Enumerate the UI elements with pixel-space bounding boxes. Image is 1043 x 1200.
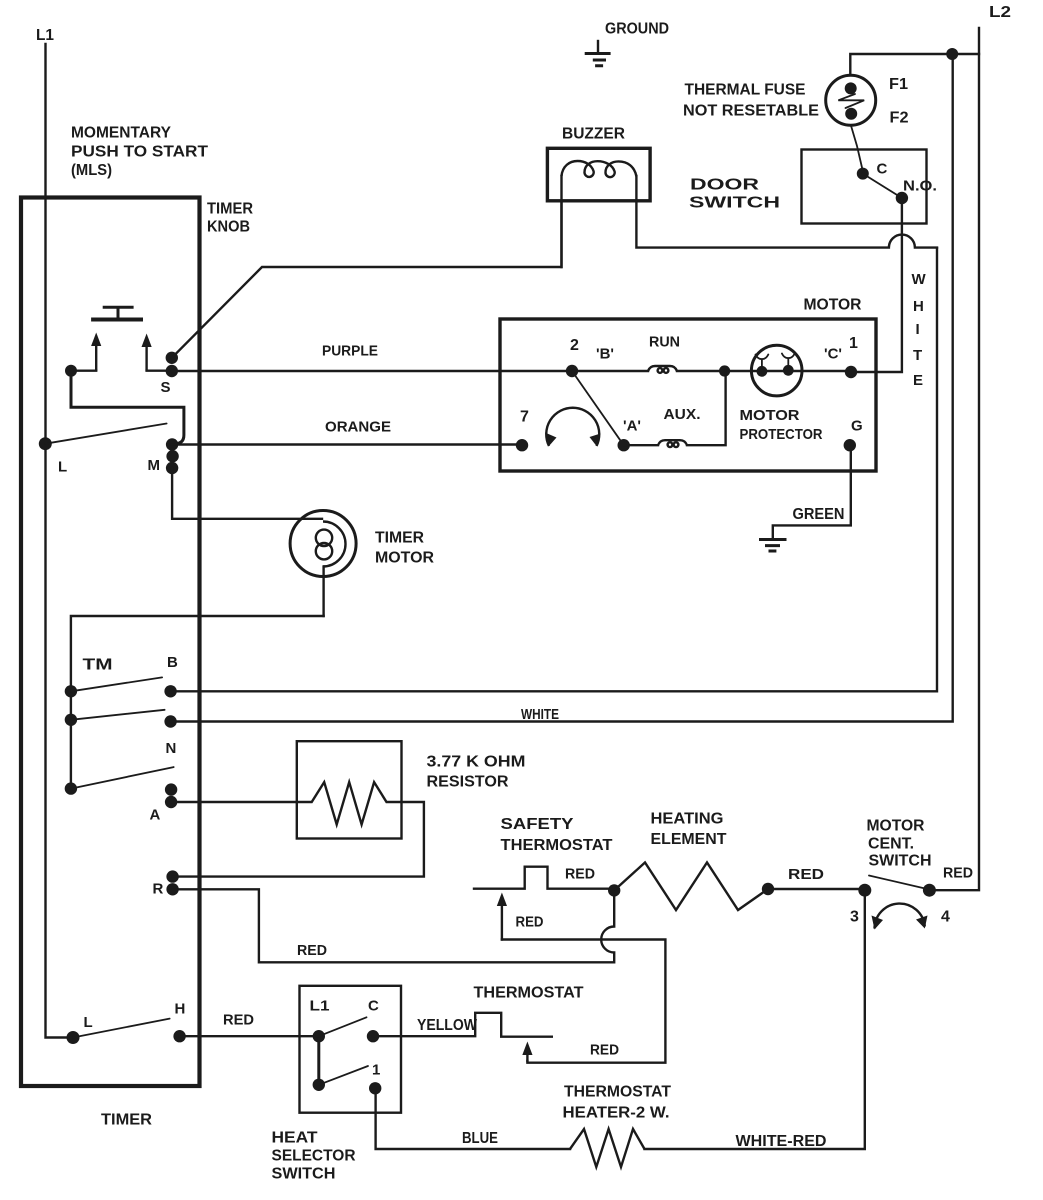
- thermostat heater 2W zigzag: [570, 1129, 645, 1167]
- svg-text:C: C: [368, 998, 379, 1015]
- buzzer left lead: [560, 176, 562, 267]
- svg-text:C: C: [877, 161, 888, 178]
- rotation arc 3-4: [875, 904, 925, 929]
- svg-text:TIMER: TIMER: [101, 1112, 152, 1129]
- svg-text:F1: F1: [889, 76, 908, 93]
- svg-text:ELEMENT: ELEMENT: [651, 831, 727, 848]
- svg-text:HEATER-2 W.: HEATER-2 W.: [563, 1105, 670, 1122]
- svg-text:KNOB: KNOB: [207, 219, 250, 236]
- svg-text:E: E: [913, 372, 923, 389]
- contact S: [166, 352, 178, 364]
- svg-text:MOTOR: MOTOR: [375, 550, 434, 567]
- svg-text:ORANGE: ORANGE: [325, 419, 391, 436]
- svg-text:T: T: [913, 347, 922, 364]
- svg-text:N: N: [166, 740, 177, 757]
- svg-text:YELLOW: YELLOW: [417, 1017, 478, 1034]
- switch blade 2-A: [572, 371, 624, 445]
- push button arrow right: [145, 345, 147, 370]
- svg-text:RED: RED: [590, 1042, 619, 1059]
- svg-text:WHITE-RED: WHITE-RED: [736, 1133, 827, 1150]
- junction node heating element left: [608, 884, 620, 896]
- wire heating element to motor cent switch: [768, 888, 865, 890]
- svg-text:H: H: [175, 1001, 186, 1018]
- wire S to buzzer: [172, 201, 562, 358]
- svg-text:L1: L1: [36, 27, 54, 44]
- svg-text:SWITCH: SWITCH: [869, 853, 932, 870]
- svg-text:SWITCH: SWITCH: [689, 195, 780, 212]
- svg-text:MOTOR: MOTOR: [804, 297, 862, 314]
- svg-text:THERMOSTAT: THERMOSTAT: [474, 985, 584, 1002]
- svg-text:I: I: [916, 321, 920, 338]
- svg-text:RED: RED: [943, 865, 973, 882]
- thermal fuse F1 F2: [826, 75, 876, 125]
- svg-text:RED: RED: [788, 866, 824, 883]
- timer box: [21, 198, 200, 1087]
- svg-text:3: 3: [850, 909, 859, 926]
- wire timer motor to TM rail: [71, 616, 324, 691]
- svg-text:R: R: [153, 881, 164, 898]
- white wire N to right rail: [171, 54, 953, 722]
- junction node run/aux: [719, 365, 730, 376]
- contact B: [164, 685, 176, 697]
- resistor R 3.77K zigzag: [297, 782, 402, 824]
- run winding: [572, 370, 648, 372]
- purple wire S to motor 2: [172, 370, 572, 372]
- svg-text:H: H: [913, 298, 924, 315]
- motor cent. switch blade: [869, 876, 929, 890]
- svg-text:MOMENTARY: MOMENTARY: [71, 125, 171, 142]
- switch blade TM-N: [71, 710, 165, 720]
- svg-text:TM: TM: [83, 657, 113, 674]
- motor cent. switch contact 3: [858, 884, 871, 897]
- svg-text:L1: L1: [310, 998, 330, 1015]
- wire L2 vertical rail: [934, 28, 979, 890]
- motor contact 7: [516, 439, 528, 451]
- svg-text:BLUE: BLUE: [462, 1130, 498, 1147]
- node L (junction on L1): [39, 437, 52, 450]
- buzzer box: [547, 148, 650, 201]
- motor protector: [751, 345, 802, 396]
- svg-text:3.77 K OHM: 3.77 K OHM: [427, 754, 526, 771]
- blue wire to heat selector 1: [376, 1093, 570, 1149]
- contact R (two dots): [166, 870, 178, 882]
- svg-text:'C': 'C': [824, 346, 842, 363]
- svg-text:HEAT: HEAT: [272, 1130, 318, 1147]
- svg-text:L: L: [58, 459, 67, 476]
- svg-text:WHITE: WHITE: [521, 706, 559, 723]
- svg-text:GROUND: GROUND: [605, 21, 669, 38]
- wire fuse bottom to door switch C: [851, 125, 863, 171]
- motor contact 1: [845, 366, 857, 378]
- svg-text:THERMOSTAT: THERMOSTAT: [564, 1084, 671, 1101]
- white-red wire 3 down: [645, 890, 865, 1149]
- svg-text:W: W: [912, 271, 927, 288]
- switch blade TM-A: [71, 767, 174, 789]
- svg-text:(MLS): (MLS): [71, 162, 112, 179]
- push button arrow left: [95, 344, 97, 370]
- contact L (bottom): [67, 1031, 80, 1044]
- yellow wire C to thermostat: [373, 1013, 552, 1037]
- svg-text:7: 7: [520, 409, 529, 426]
- safety thermostat symbol: [474, 867, 614, 889]
- contact H: [173, 1030, 185, 1042]
- svg-text:'B': 'B': [596, 346, 614, 363]
- svg-text:NOT RESETABLE: NOT RESETABLE: [683, 103, 819, 120]
- rotation arc 7-A: [546, 408, 599, 446]
- contact N: [164, 715, 176, 727]
- heat selector contact C: [367, 1030, 379, 1042]
- svg-text:F2: F2: [890, 110, 909, 127]
- svg-text:SAFETY: SAFETY: [501, 816, 574, 833]
- svg-text:2: 2: [570, 337, 579, 354]
- wire M to timer motor: [172, 468, 322, 519]
- motor cent. switch contact 4: [923, 884, 936, 897]
- svg-text:S: S: [161, 379, 171, 396]
- red wire R to heating junction (with hop): [173, 889, 615, 962]
- motor box: [500, 319, 876, 471]
- svg-text:RED: RED: [565, 866, 595, 883]
- switch blade TM-B: [71, 677, 162, 691]
- heat selector bar L1 down: [317, 1036, 320, 1085]
- svg-text:SELECTOR: SELECTOR: [272, 1148, 356, 1165]
- heat selector contact L1: [313, 1030, 325, 1042]
- resistor box: [297, 741, 402, 838]
- svg-text:HEATING: HEATING: [651, 811, 724, 828]
- svg-text:THERMOSTAT: THERMOSTAT: [501, 837, 613, 854]
- svg-text:TIMER: TIMER: [375, 530, 424, 547]
- contact M (three dots): [166, 438, 178, 450]
- svg-text:TIMER: TIMER: [207, 201, 253, 218]
- contact A (two dots): [165, 783, 177, 795]
- timer motor: [290, 511, 356, 577]
- svg-text:L: L: [84, 1014, 93, 1031]
- svg-text:DOOR: DOOR: [690, 177, 760, 194]
- buzzer coil: [562, 161, 637, 177]
- push button cap: [103, 307, 134, 318]
- svg-text:G: G: [851, 418, 863, 435]
- ground (top) symbol: [597, 41, 599, 53]
- thermostat bypass wire: [502, 940, 666, 1063]
- buzzer right lead to hop wire: [636, 176, 937, 248]
- motor contact 2: [566, 365, 578, 377]
- red wire H to heat selector: [180, 1035, 319, 1037]
- green wire to ground: [773, 445, 851, 538]
- svg-text:PURPLE: PURPLE: [322, 343, 378, 360]
- heat selector blade L1-C: [319, 1017, 367, 1036]
- svg-text:PUSH TO START: PUSH TO START: [71, 144, 208, 161]
- svg-text:RED: RED: [516, 914, 544, 931]
- motor contact A: [618, 439, 630, 451]
- svg-text:PROTECTOR: PROTECTOR: [740, 426, 823, 443]
- svg-text:4: 4: [941, 909, 950, 926]
- wire resistor to R: [173, 802, 424, 877]
- contact TM rail: [70, 691, 72, 788]
- wire fuse top to L2: [850, 54, 979, 75]
- switch blade L-H: [73, 1019, 170, 1038]
- svg-text:B: B: [167, 654, 178, 671]
- heating element: [614, 863, 768, 911]
- svg-text:MOTOR: MOTOR: [740, 407, 800, 424]
- motor contact G: [844, 439, 856, 451]
- door switch blade: [863, 174, 902, 198]
- heat selector blade lower-1: [319, 1066, 368, 1085]
- svg-text:BUZZER: BUZZER: [562, 126, 625, 143]
- door switch box: [802, 150, 927, 224]
- door switch contact N.O.: [896, 192, 908, 204]
- svg-text:SWITCH: SWITCH: [272, 1166, 336, 1183]
- svg-text:1: 1: [372, 1062, 380, 1079]
- junction dot white rail / fuse wire: [946, 48, 958, 60]
- red arrow to safety thermostat: [501, 904, 503, 940]
- svg-text:L2: L2: [989, 4, 1011, 21]
- wire A to resistor: [171, 801, 297, 803]
- wire left contact down to M: [71, 371, 184, 444]
- svg-text:N.O.: N.O.: [903, 178, 937, 195]
- orange wire M to motor 7: [172, 443, 522, 445]
- heat selector switch box: [300, 986, 402, 1113]
- svg-text:MOTOR: MOTOR: [867, 818, 925, 835]
- svg-text:'A': 'A': [623, 418, 641, 435]
- svg-text:RUN: RUN: [649, 334, 680, 351]
- svg-text:RED: RED: [297, 942, 327, 959]
- ground (motor) symbol: [759, 540, 787, 552]
- door switch contact C: [857, 168, 869, 180]
- svg-text:CENT.: CENT.: [868, 836, 914, 853]
- heat selector contact 1: [369, 1082, 381, 1094]
- svg-text:RED: RED: [223, 1012, 254, 1029]
- switch blade L-M: [45, 424, 166, 444]
- svg-text:RESISTOR: RESISTOR: [427, 774, 509, 791]
- svg-text:AUX.: AUX.: [664, 406, 701, 423]
- wire L1 vertical rail: [46, 44, 69, 1038]
- svg-text:A: A: [150, 807, 161, 824]
- svg-text:THERMAL FUSE: THERMAL FUSE: [685, 82, 806, 99]
- svg-text:M: M: [148, 457, 161, 474]
- wire B to buzzer rail: [171, 248, 937, 691]
- wire left pushbutton contact: [65, 365, 77, 377]
- white wire door switch to motor 1: [851, 198, 902, 372]
- aux winding: [624, 444, 658, 446]
- svg-text:GREEN: GREEN: [793, 506, 845, 523]
- junction node heating element right: [762, 883, 774, 895]
- svg-text:1: 1: [849, 335, 858, 352]
